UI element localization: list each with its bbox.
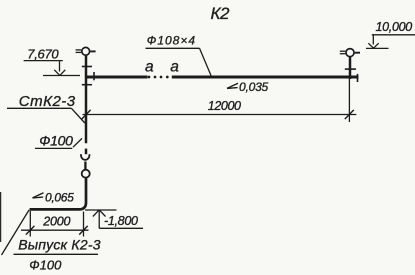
svg-text:2000: 2000 bbox=[42, 214, 70, 228]
pipe break dots a-a bbox=[148, 76, 169, 79]
svg-text:Ф108×4: Ф108×4 bbox=[147, 33, 196, 47]
svg-text:Ф100: Ф100 bbox=[29, 257, 62, 272]
main horizontal pipe, left segment bbox=[86, 76, 148, 79]
extension line left (2000 dim) bbox=[29, 211, 31, 237]
svg-text:а: а bbox=[145, 59, 154, 76]
joint tick at right end of main pipe bbox=[357, 74, 359, 82]
svg-text:12000: 12000 bbox=[208, 99, 241, 113]
joint tick on right riser bbox=[345, 68, 356, 70]
dimension line 2000 bbox=[21, 229, 89, 231]
elevation mark -1.800 bbox=[85, 210, 143, 229]
socket joint symbol (cup) on riser bbox=[81, 154, 90, 160]
svg-text:0,065: 0,065 bbox=[45, 190, 74, 204]
dimension line 12000 bbox=[83, 114, 357, 116]
cleanout circle on riser bbox=[82, 170, 90, 178]
stem between socket and cleanout bbox=[84, 162, 86, 170]
joint tick on left riser (lower) bbox=[82, 84, 92, 86]
svg-text:10,000: 10,000 bbox=[376, 20, 413, 34]
slash tick left end of 2000 bbox=[26, 226, 35, 235]
svg-text:-1,800: -1,800 bbox=[104, 214, 138, 228]
svg-text:Выпуск К2-3: Выпуск К2-3 bbox=[18, 237, 101, 253]
svg-text:СтК2-3: СтК2-3 bbox=[19, 93, 76, 110]
scan artifact at left edge bbox=[0, 192, 2, 242]
slash tick left end of 12000 bbox=[82, 110, 91, 119]
riser short stub above socket bbox=[85, 149, 88, 155]
vent cowl left bbox=[76, 47, 96, 55]
right riser bbox=[349, 57, 352, 79]
riser StK2-3 upper section bbox=[85, 55, 88, 143]
extension line right (2000 dim) bbox=[83, 212, 85, 237]
slope mark 0.035 bbox=[227, 83, 238, 88]
svg-text:а: а bbox=[170, 59, 179, 76]
leader line for outlet label bbox=[2, 210, 30, 255]
extension line below right riser bbox=[348, 79, 350, 122]
slope mark 0.065 bbox=[33, 193, 44, 198]
svg-text:7,670: 7,670 bbox=[27, 46, 59, 61]
riser lower section, elbow and outlet pipe bbox=[30, 178, 87, 210]
joint tick on main pipe near left riser bbox=[93, 72, 95, 80]
joint tick on left riser (upper) bbox=[82, 66, 92, 68]
slash tick right end of 12000 bbox=[345, 110, 354, 119]
svg-text:0,035: 0,035 bbox=[239, 80, 269, 94]
elevation mark 7.670 bbox=[24, 61, 80, 76]
svg-text:Ф100: Ф100 bbox=[39, 133, 73, 149]
main horizontal pipe, right segment bbox=[172, 76, 359, 79]
svg-text:К2: К2 bbox=[211, 4, 231, 23]
elevation mark 10.000 bbox=[366, 35, 415, 49]
vent cowl right bbox=[340, 49, 360, 57]
slash tick right end of 2000 bbox=[79, 226, 88, 235]
